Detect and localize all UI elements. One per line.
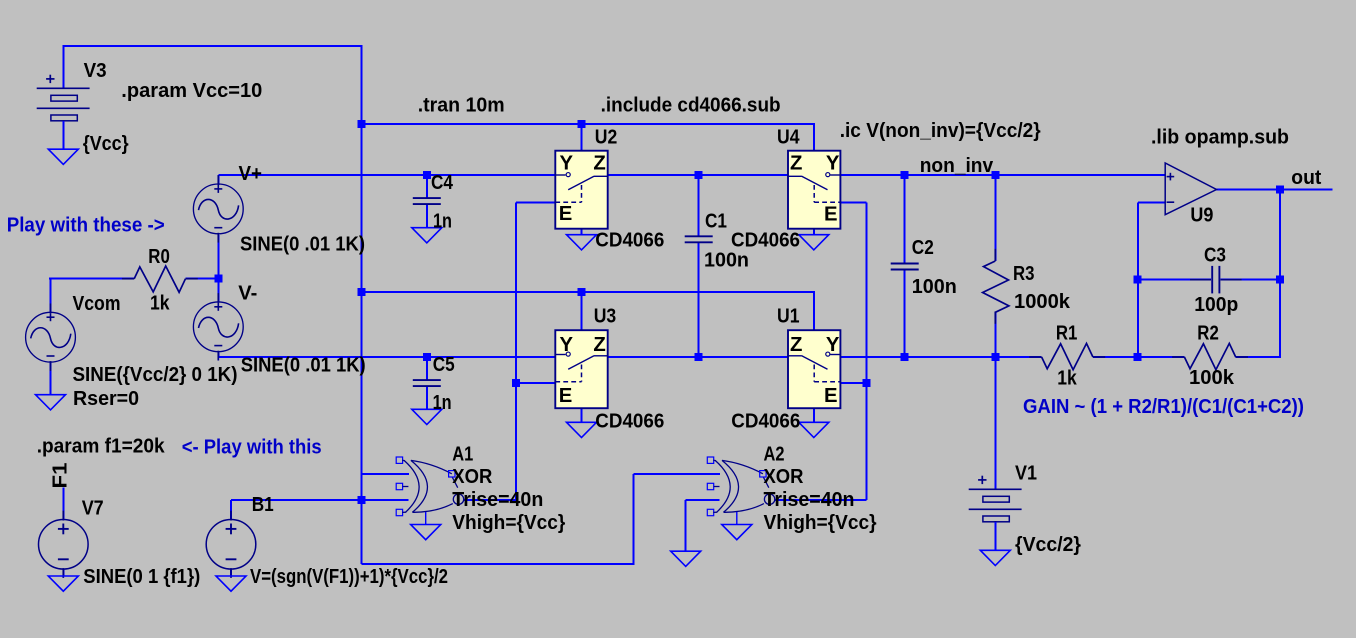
svg-text:Z: Z: [790, 334, 802, 356]
svg-text:SINE(0 .01 1K): SINE(0 .01 1K): [241, 354, 366, 376]
svg-text:.param f1=20k: .param f1=20k: [37, 435, 166, 458]
svg-text:U4: U4: [777, 127, 800, 149]
svg-text:1n: 1n: [433, 392, 452, 414]
svg-text:B1: B1: [252, 494, 274, 516]
svg-text:100n: 100n: [912, 276, 957, 298]
svg-text:C2: C2: [912, 237, 934, 259]
svg-text:V=(sgn(V(F1))+1)*{Vcc}/2: V=(sgn(V(F1))+1)*{Vcc}/2: [250, 566, 448, 588]
svg-text:R0: R0: [148, 246, 170, 268]
svg-text:U2: U2: [595, 127, 618, 149]
svg-text:.param Vcc=10: .param Vcc=10: [121, 79, 262, 102]
svg-text:SINE({Vcc/2} 0 1K): SINE({Vcc/2} 0 1K): [73, 364, 238, 386]
svg-text:Vhigh={Vcc}: Vhigh={Vcc}: [452, 512, 565, 534]
svg-text:XOR: XOR: [764, 466, 804, 488]
svg-text:C4: C4: [431, 172, 454, 194]
svg-text:E: E: [559, 203, 573, 225]
svg-text:V+: V+: [239, 163, 263, 185]
svg-text:E: E: [824, 203, 838, 225]
svg-text:{Vcc}: {Vcc}: [83, 133, 129, 155]
svg-text:GAIN ~ (1 + R2/R1)/(C1/(C1+C2): GAIN ~ (1 + R2/R1)/(C1/(C1+C2)): [1023, 395, 1304, 418]
svg-text:Rser=0: Rser=0: [73, 388, 139, 410]
svg-text:Play with these ->: Play with these ->: [7, 214, 165, 236]
svg-text:non_inv: non_inv: [920, 155, 994, 177]
svg-text:A1: A1: [452, 443, 473, 465]
svg-text:.ic V(non_inv)={Vcc/2}: .ic V(non_inv)={Vcc/2}: [840, 119, 1041, 142]
svg-text:.lib opamp.sub: .lib opamp.sub: [1151, 126, 1289, 149]
svg-text:1n: 1n: [433, 210, 452, 232]
svg-text:R3: R3: [1013, 263, 1035, 285]
svg-text:CD4066: CD4066: [595, 229, 664, 251]
svg-text:Z: Z: [593, 334, 605, 356]
svg-text:CD4066: CD4066: [731, 411, 800, 433]
svg-text:1k: 1k: [1057, 368, 1077, 390]
svg-text:.tran 10m: .tran 10m: [418, 94, 505, 117]
svg-text:Y: Y: [560, 152, 574, 174]
svg-text:C1: C1: [705, 211, 727, 233]
svg-text:C3: C3: [1204, 244, 1226, 266]
svg-text:V-: V-: [238, 283, 257, 305]
svg-text:CD4066: CD4066: [731, 229, 800, 251]
svg-text:U3: U3: [594, 306, 617, 328]
svg-text:V7: V7: [82, 497, 104, 519]
svg-text:A2: A2: [764, 443, 785, 465]
svg-text:Trise=40n: Trise=40n: [452, 489, 543, 511]
svg-text:Z: Z: [790, 152, 802, 174]
svg-text:E: E: [824, 385, 838, 407]
svg-text:<- Play with this: <- Play with this: [182, 435, 322, 458]
svg-text:E: E: [559, 385, 573, 407]
svg-text:Trise=40n: Trise=40n: [764, 489, 855, 511]
svg-text:100n: 100n: [704, 250, 749, 272]
svg-text:R2: R2: [1197, 323, 1219, 345]
svg-text:U9: U9: [1190, 204, 1213, 226]
svg-text:1000k: 1000k: [1014, 291, 1071, 313]
svg-text:V1: V1: [1015, 462, 1037, 484]
svg-text:Y: Y: [826, 334, 840, 356]
svg-text:Z: Z: [593, 152, 605, 174]
svg-text:out: out: [1291, 167, 1321, 189]
svg-text:V3: V3: [84, 60, 107, 82]
svg-text:XOR: XOR: [452, 466, 492, 488]
svg-text:Y: Y: [560, 334, 574, 356]
svg-text:R1: R1: [1056, 323, 1078, 345]
svg-text:C5: C5: [433, 354, 455, 376]
svg-text:U1: U1: [777, 306, 800, 328]
svg-text:Vcom: Vcom: [73, 293, 121, 315]
svg-text:.include cd4066.sub: .include cd4066.sub: [601, 94, 781, 117]
svg-text:1k: 1k: [150, 293, 170, 315]
svg-text:Vhigh={Vcc}: Vhigh={Vcc}: [764, 512, 877, 534]
svg-text:100k: 100k: [1189, 367, 1235, 389]
svg-text:CD4066: CD4066: [595, 411, 664, 433]
svg-text:Y: Y: [826, 152, 840, 174]
svg-text:{Vcc/2}: {Vcc/2}: [1015, 534, 1081, 556]
svg-text:F1: F1: [50, 463, 72, 489]
svg-text:100p: 100p: [1194, 294, 1238, 316]
svg-text:SINE(0 .01 1K): SINE(0 .01 1K): [240, 234, 365, 256]
svg-text:SINE(0 1 {f1}): SINE(0 1 {f1}): [83, 566, 200, 588]
